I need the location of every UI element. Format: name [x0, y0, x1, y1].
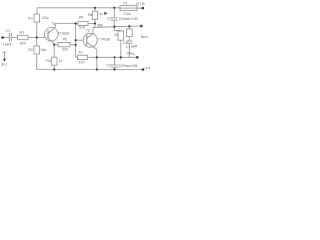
svg-text:R3: R3 [28, 16, 33, 20]
svg-text:R6: R6 [79, 15, 84, 19]
svg-text:R8: R8 [88, 13, 93, 17]
svg-text:–27В: –27В [144, 66, 150, 70]
svg-text:R4: R4 [46, 59, 51, 63]
svg-text:1 мкФ: 1 мкФ [3, 42, 12, 46]
svg-text:КТ361Б: КТ361Б [58, 31, 71, 35]
svg-text:ГТ403Б: ГТ403Б [98, 38, 111, 42]
svg-text:1,1 мкФ: 1,1 мкФ [126, 44, 138, 48]
svg-text:1к: 1к [59, 59, 63, 63]
svg-text:510: 510 [79, 26, 85, 30]
svg-text:2200мк×10В: 2200мк×10В [119, 64, 139, 68]
svg-text:820: 820 [20, 42, 26, 46]
svg-text:Т1: Т1 [51, 22, 55, 26]
svg-text:R1: R1 [20, 30, 25, 34]
svg-text:100: 100 [79, 61, 85, 65]
svg-text:1к: 1к [99, 12, 103, 16]
svg-text:Общ.: Общ. [127, 51, 136, 55]
svg-text:F1: F1 [124, 1, 128, 5]
svg-text:R7: R7 [79, 51, 84, 55]
svg-text:130к: 130к [41, 16, 49, 20]
svg-text:0,5А: 0,5А [124, 12, 132, 16]
svg-text:R5: R5 [63, 37, 68, 41]
svg-text:+27 В: +27 В [135, 2, 145, 6]
svg-text:2200мк×10В: 2200мк×10В [119, 17, 139, 21]
svg-text:390: 390 [62, 47, 68, 51]
svg-text:560: 560 [97, 23, 103, 27]
svg-text:68к: 68к [41, 48, 47, 52]
svg-text:Вх.1: Вх.1 [1, 62, 8, 66]
svg-text:С3: С3 [107, 64, 112, 68]
svg-text:В1: В1 [115, 33, 119, 37]
svg-text:R2: R2 [28, 48, 33, 52]
svg-text:Т2: Т2 [86, 29, 90, 33]
svg-text:С2: С2 [107, 17, 112, 21]
svg-text:С1: С1 [6, 29, 11, 33]
svg-text:Вых.: Вых. [141, 35, 149, 39]
